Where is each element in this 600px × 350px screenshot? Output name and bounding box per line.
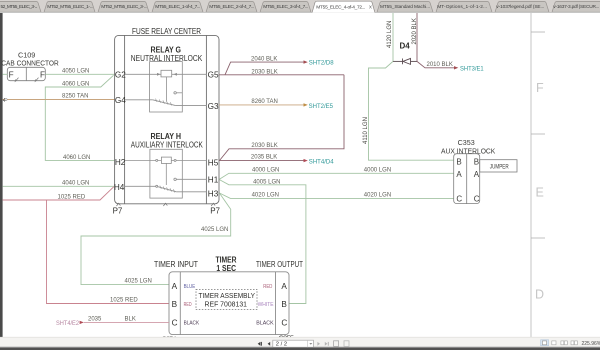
svg-text:2020 BLK: 2020 BLK	[412, 18, 418, 44]
pin labels	[114, 71, 219, 199]
diode D4	[393, 58, 417, 64]
svg-text:225.96%: 225.96%	[582, 341, 600, 347]
svg-text:TIMER INPUT: TIMER INPUT	[154, 260, 198, 269]
inactive tab shapes	[0, 1, 600, 12]
line under tab bar	[0, 11, 600, 13]
svg-text:BLUE: BLUE	[184, 284, 196, 290]
svg-text:2035 BLK: 2035 BLK	[251, 155, 277, 161]
prev view icon	[334, 341, 339, 347]
wire 2010 BLK to SHT3/E1	[417, 61, 454, 67]
wire 4000 LGN H1 to C353 A	[219, 173, 453, 179]
wire 4120 LGN from top	[392, 13, 394, 61]
svg-text:4005 LGN: 4005 LGN	[253, 180, 280, 186]
svg-text:B: B	[172, 300, 178, 309]
svg-text:4025 LGN: 4025 LGN	[201, 227, 228, 233]
relay G box	[150, 62, 183, 112]
svg-text:D: D	[535, 288, 544, 302]
svg-text:MT55_ELEC_4-of-4_72...: MT55_ELEC_4-of-4_72...	[316, 4, 365, 10]
wire 8260 TAN G3 to SHT2/E5	[219, 104, 304, 106]
wire 4050 LGN C109 to G2	[3, 73, 115, 75]
wire 2030 BLK down to H5	[219, 75, 344, 161]
connector C353	[454, 154, 480, 204]
svg-text:2 / 2: 2 / 2	[276, 342, 287, 348]
svg-text:B: B	[474, 157, 479, 166]
svg-text:G5: G5	[208, 71, 219, 80]
timer wire color labels	[184, 284, 274, 326]
svg-text:MT52_MT55_ELEC_1-...: MT52_MT55_ELEC_1-...	[47, 4, 93, 10]
svg-text:4040 LGN: 4040 LGN	[62, 181, 89, 187]
svg-text:RED: RED	[184, 302, 192, 308]
svg-text:2040 BLK: 2040 BLK	[251, 56, 277, 62]
svg-text:4000 LGN: 4000 LGN	[364, 168, 391, 174]
wire 2035 BLK H5 to SHT4/D4	[219, 160, 304, 162]
wire 2040 BLK G5 to SHT2/D8	[219, 62, 344, 75]
svg-text:BLACK: BLACK	[184, 320, 200, 326]
svg-text:D4: D4	[400, 42, 411, 51]
svg-text:4110 LGN: 4110 LGN	[363, 117, 369, 144]
svg-text:RED: RED	[263, 284, 272, 290]
svg-text:MT52_MT55_ELEC_3-...: MT52_MT55_ELEC_3-...	[101, 4, 147, 10]
arrow to SHT2/D8	[304, 60, 308, 63]
last page button (disabled)	[325, 342, 328, 346]
svg-text:1025 RED: 1025 RED	[58, 194, 86, 200]
relay H NO contact to H1	[174, 178, 176, 180]
prev page button	[268, 342, 271, 346]
svg-text:AUXILIARY INTERLOCK: AUXILIARY INTERLOCK	[131, 141, 204, 150]
svg-text:4000 LGN: 4000 LGN	[252, 168, 279, 174]
fuse relay center connector box	[115, 35, 219, 203]
svg-text:JUMPER: JUMPER	[490, 165, 509, 171]
wire 2020 BLK from top	[416, 13, 418, 61]
connector break marks	[117, 203, 216, 206]
svg-text:C: C	[456, 194, 462, 203]
svg-text:TIMER OUTPUT: TIMER OUTPUT	[256, 260, 303, 269]
svg-text:REF 7008131: REF 7008131	[205, 300, 248, 309]
svg-text:FUSE RELAY CENTER: FUSE RELAY CENTER	[132, 27, 201, 36]
svg-text:C: C	[281, 318, 287, 327]
svg-text:v-1637-3.pdf (SECUR...: v-1637-3.pdf (SECUR...	[553, 4, 599, 10]
svg-text:v-1037legend.pdf (SE...: v-1037legend.pdf (SE...	[496, 4, 544, 10]
wire 4110 LGN diode to C353 B	[369, 61, 454, 160]
zone tick marks	[531, 31, 545, 33]
svg-text:G3: G3	[208, 102, 219, 111]
svg-text:C: C	[474, 194, 480, 203]
svg-text:1025 RED: 1025 RED	[110, 297, 138, 303]
timer assembly dashed outline	[196, 289, 257, 309]
svg-text:8250 TAN: 8250 TAN	[62, 94, 88, 100]
wire 1025 RED to H4 and timer B	[3, 187, 169, 304]
svg-text:CAB CONNECTOR: CAB CONNECTOR	[1, 58, 59, 67]
svg-text:C: C	[172, 318, 178, 327]
svg-text:SHT4/D4: SHT4/D4	[309, 159, 334, 166]
svg-text:TIMER ASSEMBLY: TIMER ASSEMBLY	[199, 291, 256, 300]
next page button (disabled)	[317, 342, 320, 346]
svg-text:P7: P7	[210, 207, 220, 216]
svg-text:P7: P7	[113, 207, 123, 216]
svg-text:G2: G2	[115, 71, 126, 80]
svg-text:4020 LGN: 4020 LGN	[364, 193, 391, 199]
svg-text:4060 LGN: 4060 LGN	[63, 155, 90, 161]
svg-text:4120 LGN: 4120 LGN	[387, 21, 393, 48]
svg-text:G4: G4	[115, 96, 126, 105]
svg-text:MT55_ELEC_3-of-4_7...: MT55_ELEC_3-of-4_7...	[263, 4, 308, 10]
svg-text:H3: H3	[208, 189, 219, 198]
svg-text:SHT4/E2: SHT4/E2	[56, 320, 79, 327]
wire 4025 LGN H3 to timer input A	[81, 193, 231, 285]
wire 4040 LGN to H4	[3, 185, 114, 187]
svg-text:E: E	[536, 186, 544, 200]
svg-text:2010 BLK: 2010 BLK	[427, 62, 453, 68]
svg-text:B: B	[281, 300, 287, 309]
wire 4020 LGN H3 to C353 C	[219, 193, 453, 198]
svg-text:MT55_ELEC_2-of-4_7...: MT55_ELEC_2-of-4_7...	[209, 4, 254, 10]
relay H box	[150, 149, 182, 198]
svg-text:F: F	[9, 70, 14, 79]
svg-text:A: A	[456, 170, 462, 179]
svg-text:SHT2/D8: SHT2/D8	[309, 59, 334, 66]
svg-text:2030 BLK: 2030 BLK	[251, 69, 277, 75]
svg-text:A: A	[172, 282, 178, 291]
wire 4060 LGN G2 to H2	[45, 75, 114, 160]
zone border line	[530, 13, 532, 337]
svg-text:A: A	[281, 282, 287, 291]
svg-text:4060 LGN: 4060 LGN	[62, 81, 89, 87]
jumper box	[480, 160, 517, 172]
connector C109	[7, 67, 45, 80]
relay H switch	[125, 186, 207, 193]
page left edge bar	[0, 13, 3, 337]
svg-text:H2: H2	[115, 158, 126, 167]
page number field	[273, 340, 314, 347]
svg-text:F: F	[536, 81, 544, 95]
relay G coil wires	[125, 74, 207, 101]
first page button	[258, 342, 261, 346]
svg-text:SHT2/E5: SHT2/E5	[309, 103, 334, 110]
relay G NO contact	[174, 92, 176, 94]
wire 8250 TAN to G4	[3, 99, 115, 101]
next view icon	[344, 341, 349, 347]
wire 4005 LGN H1 to timer output B	[219, 180, 306, 304]
timer assembly box	[169, 272, 289, 335]
svg-text:MT55_Standard Machi...: MT55_Standard Machi...	[380, 4, 430, 10]
active tab	[312, 1, 375, 13]
svg-text:SHT3/E1: SHT3/E1	[460, 65, 484, 72]
svg-text:x: x	[369, 5, 372, 11]
svg-text:H1: H1	[208, 176, 219, 185]
svg-text:MT55_ELEC_1-of-4_7...: MT55_ELEC_1-of-4_7...	[155, 4, 200, 10]
svg-text:4050 LGN: 4050 LGN	[62, 68, 89, 74]
svg-text:4020 LGN: 4020 LGN	[252, 193, 279, 199]
relay H coil	[161, 157, 171, 163]
svg-text:8260 TAN: 8260 TAN	[251, 99, 277, 105]
view mode buttons	[541, 340, 549, 346]
svg-text:MT-Options_1-of-1-2...: MT-Options_1-of-1-2...	[437, 4, 487, 10]
svg-text:B: B	[456, 157, 461, 166]
svg-text:52_MT55_ELEC_3-...: 52_MT55_ELEC_3-...	[1, 4, 38, 10]
relay G coil	[161, 70, 172, 77]
svg-text:BLACK: BLACK	[256, 320, 273, 326]
svg-text:BLK: BLK	[125, 316, 136, 322]
svg-text:4025 LGN: 4025 LGN	[125, 279, 152, 285]
svg-text:H4: H4	[114, 183, 125, 192]
svg-text:WHITE: WHITE	[258, 302, 274, 308]
svg-text:2035: 2035	[88, 316, 102, 322]
svg-text:F: F	[40, 70, 45, 79]
svg-text:H5: H5	[208, 158, 219, 167]
relay G switch	[125, 99, 207, 106]
C109 cavity arrows	[15, 78, 39, 83]
svg-text:A: A	[474, 170, 480, 179]
svg-text:2030 BLK: 2030 BLK	[251, 143, 277, 149]
